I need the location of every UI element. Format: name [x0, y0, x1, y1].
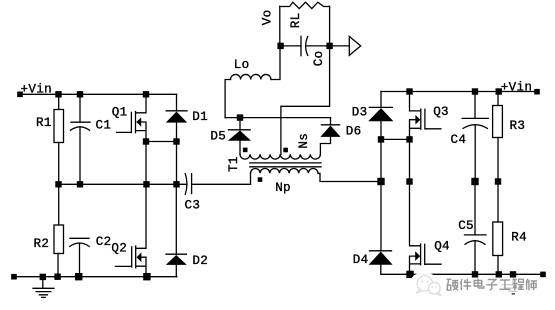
junction R1 top	[55, 91, 61, 97]
wire bottom-right rail	[381, 273, 543, 275]
wire Q3 source to mid rail	[409, 139, 411, 181]
inductor Lo	[231, 74, 272, 79]
transistor Q1	[117, 94, 147, 141]
junction Q3 source	[406, 136, 412, 142]
wire Co left lead	[281, 45, 301, 47]
svg-text:D1: D1	[192, 110, 208, 124]
diode D6	[320, 125, 340, 137]
svg-text:C4: C4	[451, 133, 467, 147]
junction C1 top	[77, 91, 83, 97]
svg-text:C3: C3	[185, 199, 201, 213]
svg-text:R1: R1	[36, 116, 52, 130]
svg-text:D6: D6	[346, 124, 362, 138]
svg-text:Ns: Ns	[297, 133, 311, 149]
svg-text:RL: RL	[289, 12, 303, 28]
svg-text:C2: C2	[96, 235, 112, 249]
node +Vin (left input terminal)	[17, 92, 23, 98]
wire R3 top lead	[497, 92, 499, 106]
svg-text:Q1: Q1	[112, 105, 128, 119]
ground (right, behind watermark)	[503, 277, 524, 292]
wire D2 bottom lead	[175, 265, 177, 277]
diode D1	[166, 111, 187, 123]
junction R2 bottom	[54, 274, 60, 280]
resistor R1	[54, 110, 64, 143]
wire R2 bottom lead	[57, 254, 59, 277]
resistor R2	[54, 225, 64, 254]
svg-text:D3: D3	[352, 105, 368, 119]
wire Q1 source to mid rail	[145, 142, 147, 185]
junction D5 cathode	[237, 114, 243, 120]
wire C5 bottom lead	[474, 241, 476, 274]
wire C1 bottom lead	[79, 127, 81, 184]
svg-text:Np: Np	[275, 181, 291, 195]
junction Q3 drain	[406, 88, 412, 94]
svg-text:Q4: Q4	[434, 239, 450, 253]
transistor Q2	[115, 184, 146, 276]
junction D1 bottom	[173, 138, 179, 144]
wire D6 anode jog	[320, 137, 330, 154]
transistor Q3	[410, 92, 441, 140]
port Vo output arrow	[349, 36, 360, 55]
wire D4 top lead	[380, 182, 382, 251]
capacitor C2	[70, 238, 89, 246]
junction mid rail C column	[77, 181, 83, 187]
junction ground stub	[40, 274, 46, 280]
wire D3 top lead	[380, 92, 382, 108]
wire D5 anode lead	[239, 141, 241, 155]
junction D3 anode / node B	[378, 136, 384, 142]
node left ground terminal	[11, 274, 17, 280]
transformer T1 primary winding Np	[251, 168, 319, 173]
svg-text:C1: C1	[96, 118, 112, 132]
watermark WeChat icon	[417, 276, 441, 296]
junction C5 bottom	[472, 271, 478, 277]
svg-text:D2: D2	[192, 254, 208, 268]
wire R1-R2 link	[58, 143, 60, 226]
diode D3	[368, 107, 393, 121]
junction mid-right D column	[377, 178, 384, 185]
wire bottom-left rail	[14, 276, 177, 278]
wire primary right lead	[318, 173, 381, 181]
wire C4 top lead	[474, 92, 476, 119]
diode D5	[228, 130, 251, 141]
capacitor C4	[462, 118, 488, 128]
wire top-right rail	[381, 91, 537, 93]
capacitor C1	[71, 122, 91, 130]
transistor Q4	[410, 182, 442, 275]
wire Co right lead	[306, 45, 350, 47]
capacitor Co	[301, 36, 308, 55]
junction right ground stub	[510, 271, 516, 277]
transformer T1 secondary winding Ns	[240, 154, 320, 159]
junction mid rail R column	[55, 181, 61, 187]
wire Lo left lead	[225, 80, 230, 118]
wire C5 top lead	[474, 182, 476, 235]
svg-text:Q2: Q2	[111, 241, 127, 255]
svg-text:Q3: Q3	[433, 105, 449, 119]
wire RL right leg	[329, 6, 331, 46]
ground (left)	[33, 279, 54, 297]
wire D3-Q3 link	[381, 138, 410, 140]
junction mid-right Q column	[406, 178, 412, 184]
diode D2	[166, 254, 187, 265]
junction mid-right R column	[495, 178, 501, 184]
resistor RL (zigzag)	[280, 2, 330, 8]
svg-text:T1: T1	[227, 156, 241, 172]
wire D1 top lead	[176, 94, 178, 111]
wire mid-left rail	[59, 183, 188, 185]
svg-text:R2: R2	[34, 237, 50, 251]
junction Co left	[277, 43, 283, 49]
junction Q1 drain	[143, 91, 149, 97]
resistor R3	[493, 106, 503, 138]
wire C2 bottom lead	[79, 243, 81, 277]
capacitor C3	[185, 174, 191, 195]
wire D4 anode lead	[380, 265, 382, 275]
svg-text:R3: R3	[510, 119, 526, 133]
wire rectifier cathode bus	[225, 117, 330, 119]
watermark halo	[410, 272, 543, 297]
wire Lo right lead	[271, 46, 280, 80]
wire D2 top lead	[175, 184, 177, 254]
junction Co right	[326, 43, 332, 49]
ground (right) visible dash	[512, 293, 515, 295]
wire R4 top lead	[497, 182, 499, 223]
polarity dot secondary left	[243, 148, 248, 153]
svg-text:C5: C5	[458, 219, 474, 233]
svg-text:D4: D4	[353, 253, 369, 267]
wire RL left leg	[279, 6, 281, 46]
svg-text:Lo: Lo	[234, 58, 250, 72]
wire primary left lead	[250, 173, 252, 184]
wire Q1-D1 link	[146, 141, 177, 143]
polarity dot secondary centre	[283, 148, 288, 153]
wire R3 bottom lead	[497, 138, 499, 182]
node right ground terminal	[540, 272, 546, 278]
svg-text:Co: Co	[312, 50, 326, 66]
watermark text 硬件电子工程师 (drawn strokes)	[447, 279, 538, 291]
junction R4 bottom	[496, 271, 502, 277]
svg-text:D5: D5	[210, 130, 226, 144]
wire D6 cathode stub	[330, 118, 332, 125]
wire R1 top lead	[58, 94, 60, 109]
transformer core	[250, 163, 321, 167]
wire top-left rail	[20, 93, 177, 95]
resistor R4	[493, 222, 503, 256]
wire C1 top lead	[79, 94, 81, 122]
diode D4	[369, 251, 393, 265]
junction Q1 source / node A	[143, 138, 149, 144]
wire D5 cathode stub	[239, 118, 241, 130]
wire C3 to transformer	[192, 183, 251, 185]
junction mid rail D column	[173, 181, 179, 187]
junction C2 bottom	[75, 273, 82, 280]
wire D3 to mid rail	[380, 121, 382, 181]
wire secondary centre-tap riser	[281, 46, 330, 154]
svg-text:Vo: Vo	[260, 9, 274, 25]
wire D1 to mid rail	[176, 123, 178, 185]
node +Vin (right input terminal)	[534, 89, 540, 95]
junction C4 top	[472, 88, 478, 94]
junction Q4 source	[406, 271, 413, 278]
wire R4 bottom lead	[497, 256, 499, 275]
junction Q2 source	[143, 273, 150, 280]
junction mid rail Q column	[143, 181, 149, 187]
capacitor C5	[465, 235, 487, 244]
junction R3 top	[496, 88, 502, 94]
polarity dot primary	[258, 177, 263, 182]
junction mid-right C column	[471, 178, 478, 185]
svg-text:R4: R4	[511, 230, 527, 244]
svg-text:+Vin: +Vin	[501, 80, 532, 94]
wire C4 bottom lead	[474, 125, 476, 182]
